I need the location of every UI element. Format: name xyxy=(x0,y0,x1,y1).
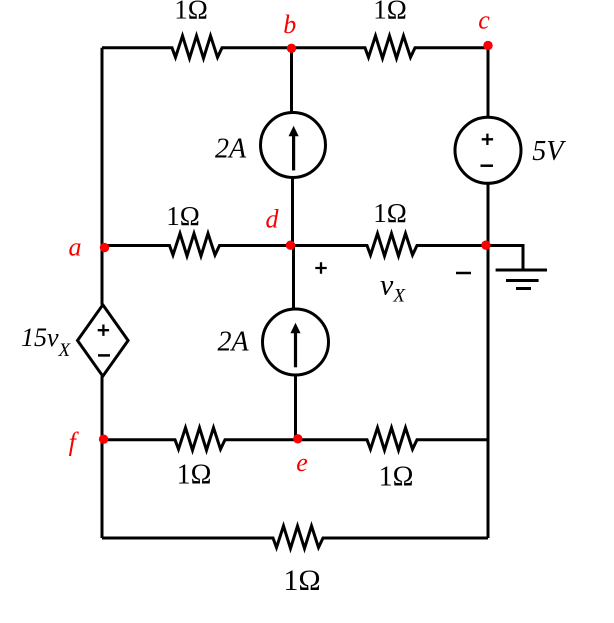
svg-text:1Ω: 1Ω xyxy=(174,0,208,25)
svg-text:1Ω: 1Ω xyxy=(283,564,320,597)
svg-text:c: c xyxy=(478,6,490,35)
svg-text:a: a xyxy=(69,233,82,262)
svg-text:1Ω: 1Ω xyxy=(373,198,407,228)
svg-text:1Ω: 1Ω xyxy=(166,201,200,231)
svg-text:5V: 5V xyxy=(532,136,566,167)
svg-text:2A: 2A xyxy=(217,326,249,357)
svg-text:e: e xyxy=(296,448,308,477)
svg-text:d: d xyxy=(266,204,280,233)
svg-text:1Ω: 1Ω xyxy=(379,462,414,493)
svg-text:1Ω: 1Ω xyxy=(373,0,407,24)
svg-text:b: b xyxy=(283,10,296,39)
svg-text:2A: 2A xyxy=(215,133,247,164)
svg-text:1Ω: 1Ω xyxy=(177,460,212,491)
